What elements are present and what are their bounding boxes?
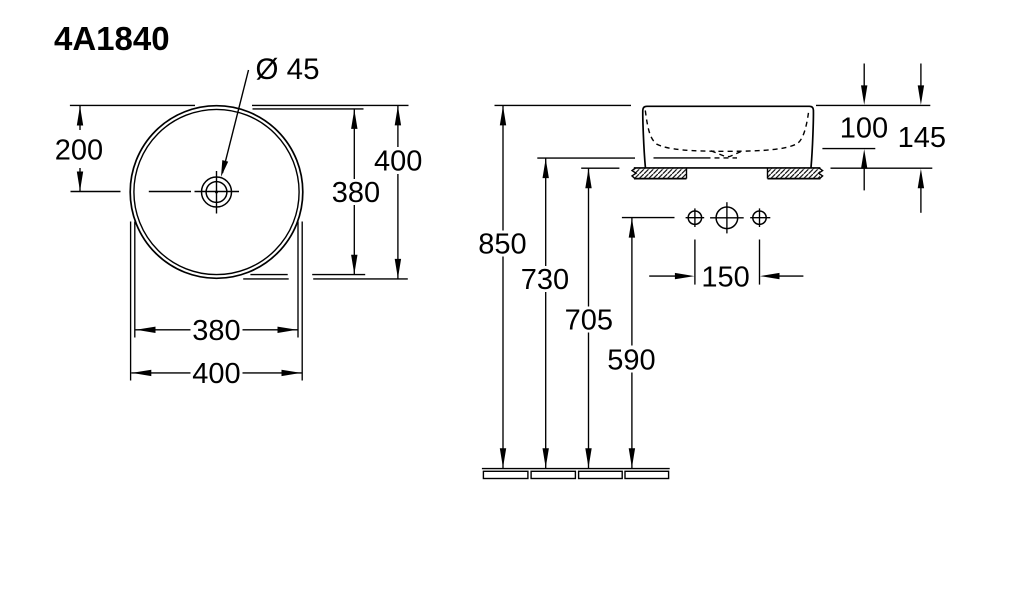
vertical 400 dimension line upper part [397, 105, 399, 147]
705 extension line [581, 167, 619, 169]
100 top arrow [861, 85, 867, 105]
200 dimension line lower stub [79, 168, 81, 191]
basin profile outline [643, 106, 814, 167]
380 horizontal dimension line left part [136, 329, 191, 331]
705 dimension line upper part [588, 168, 590, 306]
100 bottom arrow [861, 149, 867, 169]
850 top arrow [500, 106, 506, 126]
svg-text:4A1840: 4A1840 [54, 20, 170, 57]
400 bottom extension line left segment [243, 278, 289, 280]
400 bottom extension line right segment [313, 278, 408, 280]
400 horizontal dimension line right part [243, 372, 302, 374]
850 dimension line upper part [502, 105, 504, 230]
150 left extension line [694, 240, 696, 285]
floor tile rectangle 1 [483, 471, 528, 478]
590 top arrow [629, 218, 635, 238]
floor line [482, 468, 670, 470]
400 horizontal dimension line left part [131, 372, 190, 374]
850 dimension line lower part [502, 257, 504, 469]
vertical 400 top arrow [395, 106, 401, 126]
left outer extension line below circle (400) [130, 222, 132, 381]
centerline dash left outer / 200 bottom reference [71, 191, 121, 193]
850 bottom arrow [500, 448, 506, 468]
vertical 380 dimension line upper part [353, 109, 355, 179]
400 right arrow [282, 370, 302, 376]
590 dimension line lower part [631, 373, 633, 469]
basin outer circle [130, 106, 303, 279]
top reference line left of basin [495, 104, 632, 106]
svg-text:100: 100 [840, 113, 888, 145]
vertical 400 bottom arrow [395, 259, 401, 279]
705 top arrow [585, 169, 591, 189]
tap hole crosshair vertical [216, 171, 218, 214]
tap hole outer circle [202, 177, 232, 207]
center tap hole crosshair [710, 217, 744, 219]
svg-text:400: 400 [192, 358, 240, 390]
leader line for tap hole diameter [223, 70, 249, 173]
svg-text:590: 590 [607, 344, 655, 376]
730 bottom arrow [543, 448, 549, 468]
380 right arrow [278, 327, 298, 333]
145 top arrow tail [920, 64, 922, 89]
730 dimension line upper part [545, 158, 547, 266]
countertop line [634, 167, 821, 169]
centerline dash left inner [149, 191, 191, 193]
705 dimension line lower part [588, 333, 590, 469]
left inner extension line below circle (380) [134, 222, 136, 338]
vertical 380 bottom arrow [351, 255, 357, 275]
svg-text:850: 850 [478, 229, 526, 261]
tap hole center dot [215, 191, 218, 194]
150 dimension line right tail [779, 275, 803, 277]
705 bottom arrow [585, 448, 591, 468]
145 bottom arrow [918, 169, 924, 189]
left tap hole circle [688, 211, 701, 224]
right outer extension line below circle (400) [301, 222, 303, 381]
svg-text:705: 705 [565, 305, 613, 337]
svg-text:150: 150 [701, 261, 749, 293]
vertical 380 dimension line lower part [353, 205, 355, 275]
145 bottom arrow tail [920, 186, 922, 213]
basin inner rim circle [134, 109, 299, 274]
380 horizontal dimension line right part [243, 329, 298, 331]
vertical 400 dimension line lower part [397, 174, 399, 279]
leader arrowhead [221, 160, 228, 177]
380 top extension line [253, 108, 364, 110]
floor tile rectangle 2 [531, 471, 575, 478]
730 extension line [537, 157, 635, 159]
730 top arrow [543, 159, 549, 179]
top reference line right of basin [816, 104, 930, 106]
floor tile rectangle 4 [625, 471, 669, 478]
left counter hatch strip [632, 168, 687, 179]
floor tile rectangle 3 [579, 471, 623, 478]
basin inner bowl dashed outline [645, 111, 808, 152]
200 bottom arrow [77, 172, 83, 192]
100 bottom arrow tail [863, 166, 865, 190]
tap hole inner circle [206, 182, 227, 203]
150 left arrow [675, 273, 695, 279]
tap holes centerline [622, 217, 675, 219]
center tap hole circle [716, 207, 738, 229]
100 bottom extension line [822, 148, 875, 150]
left tap hole crosshair [686, 217, 705, 219]
right counter hatch strip [768, 168, 823, 179]
150 right extension line [759, 240, 761, 285]
730 dimension line lower part [545, 292, 547, 468]
150 right arrow [760, 273, 780, 279]
tap hole crosshair horizontal [195, 191, 240, 193]
right tap hole circle [753, 211, 766, 224]
svg-text:730: 730 [521, 264, 569, 296]
145 bottom extension line right of counter [831, 167, 933, 169]
590 dimension line upper part [631, 218, 633, 346]
svg-text:380: 380 [192, 315, 240, 347]
380 left arrow [136, 327, 156, 333]
svg-text:145: 145 [898, 122, 946, 154]
bowl bottom reference dashes inside basin [715, 157, 738, 159]
200 top arrow [77, 106, 83, 126]
svg-text:200: 200 [55, 135, 103, 167]
right tap hole crosshair [750, 217, 770, 219]
150 dimension line left tail [649, 275, 675, 277]
380 bottom extension line left segment [250, 274, 287, 276]
100 top arrow tail [863, 64, 865, 89]
200 dimension line upper stub [79, 105, 81, 130]
380 bottom extension line right segment [312, 274, 365, 276]
right inner extension line below circle (380) [297, 222, 299, 338]
bowl bottom reference solid line inside basin [654, 157, 711, 159]
drain recess dashed detail [711, 151, 743, 157]
svg-text:380: 380 [332, 177, 380, 209]
top tangent line right segment [252, 104, 409, 106]
145 top arrow [918, 85, 924, 105]
svg-text:400: 400 [374, 145, 422, 177]
590 bottom arrow [629, 448, 635, 468]
vertical 380 top arrow [351, 109, 357, 128]
svg-text:Ø 45: Ø 45 [256, 53, 320, 86]
top tangent line left segment [70, 104, 195, 106]
400 left arrow [132, 370, 152, 376]
